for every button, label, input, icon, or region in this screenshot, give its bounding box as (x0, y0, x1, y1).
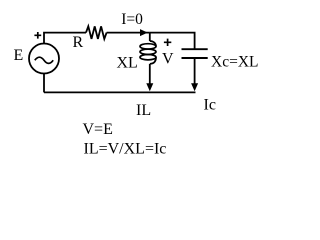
voltage source E (AC source circle) (29, 44, 59, 74)
wire: capacitor bottom stub with Ic arrow (194, 58, 196, 85)
plus sign above V (164, 39, 171, 46)
resistor R (zigzag) (86, 26, 107, 39)
inductor coil loop 3 (140, 55, 156, 60)
svg-text:V: V (162, 51, 174, 68)
svg-text:XL: XL (117, 54, 138, 71)
capacitor bottom plate (182, 57, 208, 59)
svg-text:V=E: V=E (83, 121, 113, 138)
current arrow I=0 on top wire (140, 29, 148, 36)
sine wave inside source (35, 57, 53, 63)
svg-text:IL=V/XL=Ic: IL=V/XL=Ic (84, 140, 167, 157)
IL arrowhead (146, 83, 153, 91)
inductor coil loop 2 (140, 49, 156, 54)
svg-text:Ic: Ic (204, 96, 216, 113)
wire: resistor to inductor junction (107, 32, 150, 34)
svg-text:R: R (73, 34, 84, 51)
capacitor top plate (182, 48, 208, 50)
wire: source top to top rail corner (44, 33, 86, 44)
inductor coil loop 1 (140, 44, 156, 49)
inductor XL: top stub (149, 33, 151, 41)
wire: coil down with IL arrow to bottom rail (149, 64, 151, 85)
svg-text:IL: IL (136, 102, 151, 119)
svg-text:I=0: I=0 (121, 11, 143, 28)
svg-text:Xc=XL: Xc=XL (211, 54, 258, 71)
Ic arrowhead (191, 83, 198, 91)
bottom rail (44, 91, 196, 93)
wire: source bottom to bottom rail (43, 74, 45, 93)
inductor coil exit hook (150, 57, 156, 64)
svg-text:E: E (14, 47, 24, 64)
plus sign at source (34, 32, 41, 39)
top rail: junction to capacitor corner and down to plate (150, 33, 195, 49)
inductor XL coil entry hook (150, 41, 156, 46)
